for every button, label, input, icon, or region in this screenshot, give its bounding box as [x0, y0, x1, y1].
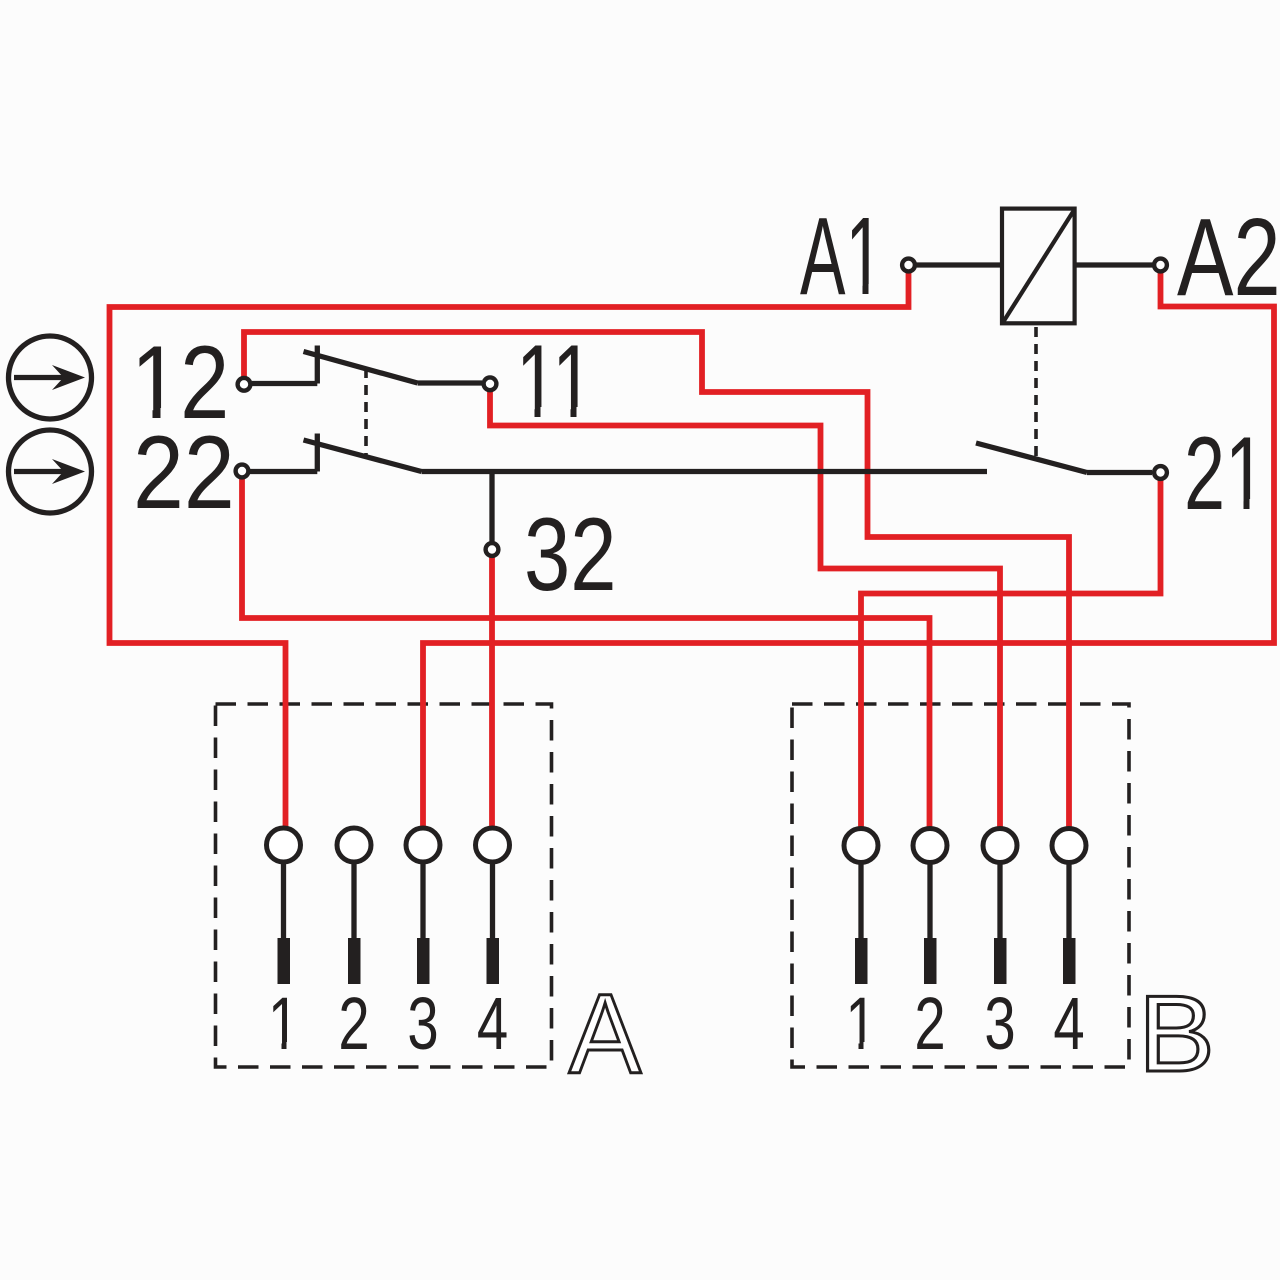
NC contact 22: fixed contact bar	[315, 434, 320, 472]
NO contact 21: moving blade	[976, 443, 1087, 473]
wire 11 to terminal B-3 (red)	[490, 391, 1000, 829]
connector B pin 1	[844, 829, 878, 985]
svg-text:3: 3	[984, 983, 1015, 1065]
NC contact 12-11: moving blade	[304, 352, 418, 384]
wire 12 to terminal B-4 (red)	[244, 332, 1069, 829]
svg-text:22: 22	[133, 414, 235, 531]
label 21	[1184, 416, 1266, 532]
svg-text:2: 2	[338, 983, 369, 1065]
NC contact 12-11: wire to 11	[418, 380, 483, 385]
wire A2 to terminal A-3 (red)	[423, 272, 1274, 829]
terminal node A2	[1154, 259, 1167, 272]
wire coil to A2	[1075, 262, 1153, 267]
direction arrow symbol 1	[9, 336, 92, 419]
label A pin number 2	[338, 983, 369, 1065]
svg-text:4: 4	[1053, 983, 1084, 1065]
wire junction to 32	[489, 472, 494, 543]
label B pin number 3	[984, 983, 1015, 1065]
terminal node 12	[238, 378, 251, 391]
svg-text:A1: A1	[800, 195, 883, 318]
svg-text:1: 1	[268, 983, 299, 1065]
label 11	[516, 324, 594, 440]
mechanical linkage 12-22 (dashed)	[364, 368, 368, 456]
NO contact 21: wire to 21	[1087, 470, 1152, 475]
label A pin number 4	[477, 983, 508, 1065]
label 12	[131, 325, 229, 440]
terminal node 32	[486, 543, 499, 556]
relay coil K1	[1002, 209, 1075, 324]
connector B pin 2	[913, 829, 947, 985]
label B pin number 2	[914, 983, 945, 1065]
wire 22 common line	[422, 469, 988, 474]
label A1	[800, 195, 883, 318]
label B pin number 1	[845, 983, 876, 1065]
terminal node 21	[1154, 466, 1167, 479]
label A2	[1177, 195, 1280, 318]
connector A pin 4	[476, 828, 510, 984]
label group letter B	[1138, 973, 1215, 1094]
connector B pin 4	[1052, 829, 1086, 985]
svg-text:1: 1	[845, 983, 876, 1065]
label 22	[133, 414, 235, 531]
connector A pin 1	[267, 828, 301, 984]
direction arrow symbol 2	[9, 430, 92, 513]
svg-text:A2: A2	[1177, 195, 1280, 318]
label group letter A	[569, 971, 641, 1098]
svg-text:32: 32	[524, 496, 617, 612]
connector A pin 3	[406, 828, 440, 984]
wire 21 to terminal B-1 (red)	[861, 480, 1161, 829]
svg-text:4: 4	[477, 983, 508, 1065]
label B pin number 4	[1053, 983, 1084, 1065]
NC contact 12-11: wire from 12	[252, 381, 317, 386]
svg-text:11: 11	[516, 324, 594, 440]
label A pin number 1	[268, 983, 299, 1065]
NC contact 22: moving blade	[304, 440, 422, 472]
dashed box A (connector group A)	[216, 704, 552, 1067]
terminal node 11	[484, 377, 497, 390]
svg-text:B: B	[1138, 973, 1215, 1094]
connector B pin 3	[983, 829, 1017, 985]
white patches to square off "1" glyph feet (target font has no foot serif)	[136, 284, 1264, 1050]
NC contact 12-11: fixed contact bar	[315, 346, 320, 384]
svg-text:A: A	[569, 971, 641, 1098]
label 32	[524, 496, 617, 612]
svg-text:3: 3	[407, 983, 438, 1065]
wire 22 to terminal B-2 (red)	[242, 478, 930, 829]
wire A1 to coil	[916, 262, 1002, 267]
wire 32 to terminal A-4 (red)	[489, 556, 495, 828]
svg-text:21: 21	[1184, 416, 1266, 532]
label A pin number 3	[407, 983, 438, 1065]
svg-text:2: 2	[914, 983, 945, 1065]
terminal node 22	[236, 465, 249, 478]
connector A pin 2	[337, 828, 371, 984]
NC contact 22: wire from 22	[250, 469, 317, 474]
terminal node A1	[902, 259, 915, 272]
dashed box B (connector group B)	[792, 704, 1129, 1067]
mechanical linkage coil-21 (dashed)	[1034, 327, 1038, 462]
wire A1 to terminal A-1 (red)	[110, 272, 909, 829]
